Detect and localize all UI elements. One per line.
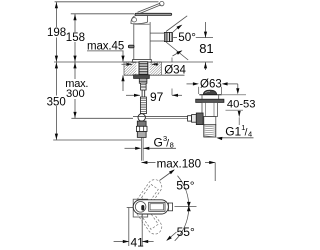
svg-text:max.180: max.180 xyxy=(157,157,201,170)
svg-text:8: 8 xyxy=(170,140,174,149)
svg-text:55°: 55° xyxy=(177,225,195,239)
svg-text:Ø34: Ø34 xyxy=(164,65,186,77)
svg-text:41: 41 xyxy=(131,235,145,249)
svg-text:4: 4 xyxy=(248,129,252,138)
svg-text:97: 97 xyxy=(150,90,164,104)
svg-text:Ø63: Ø63 xyxy=(200,79,222,91)
svg-text:300: 300 xyxy=(66,88,85,100)
svg-text:350: 350 xyxy=(47,97,66,109)
svg-text:G: G xyxy=(154,136,163,150)
svg-text:50°: 50° xyxy=(178,31,196,44)
svg-text:198: 198 xyxy=(47,27,66,39)
svg-text:55°: 55° xyxy=(176,179,195,193)
svg-text:158: 158 xyxy=(66,32,85,44)
svg-text:G1: G1 xyxy=(225,125,241,139)
svg-text:81: 81 xyxy=(199,41,213,56)
svg-text:40-53: 40-53 xyxy=(227,98,256,110)
